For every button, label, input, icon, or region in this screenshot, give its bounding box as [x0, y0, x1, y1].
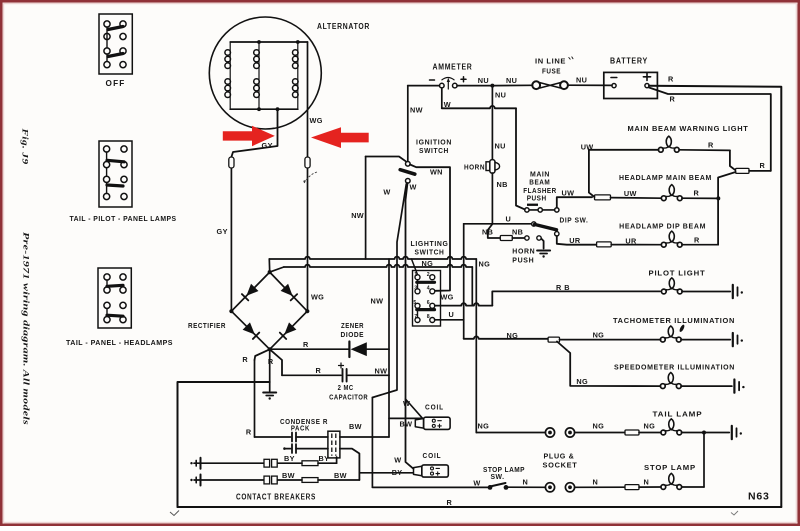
svg-text:8: 8: [427, 314, 430, 320]
svg-text:NU: NU: [506, 76, 517, 85]
svg-text:R: R: [447, 498, 453, 507]
svg-text:HORN: HORN: [512, 247, 535, 256]
svg-text:BY: BY: [319, 454, 330, 463]
svg-text:5: 5: [413, 300, 416, 306]
svg-text:SWITCH: SWITCH: [415, 247, 445, 256]
svg-text:PUSH: PUSH: [527, 193, 547, 202]
svg-text:PACK: PACK: [291, 423, 310, 432]
svg-text:WG: WG: [310, 116, 323, 125]
svg-text:PILOT LIGHT: PILOT LIGHT: [649, 269, 706, 278]
svg-text:UW: UW: [562, 188, 575, 197]
svg-text:DIP SW.: DIP SW.: [560, 215, 589, 224]
svg-text:PUSH: PUSH: [512, 255, 534, 264]
svg-text:NB: NB: [482, 228, 493, 237]
svg-text:NW: NW: [375, 367, 388, 376]
svg-text:W: W: [410, 183, 417, 192]
svg-text:COIL: COIL: [423, 451, 442, 460]
svg-text:MAIN BEAM WARNING LIGHT: MAIN BEAM WARNING LIGHT: [628, 124, 749, 133]
svg-text:BATTERY: BATTERY: [610, 57, 648, 66]
svg-text:FUSE: FUSE: [542, 67, 561, 76]
svg-text:W: W: [444, 100, 451, 109]
svg-text:SW.: SW.: [491, 472, 505, 481]
svg-text:R: R: [694, 235, 700, 244]
svg-text:UR: UR: [569, 236, 581, 245]
svg-text:R: R: [708, 141, 714, 150]
svg-text:SWITCH: SWITCH: [419, 146, 449, 155]
svg-text:NG: NG: [593, 331, 605, 340]
svg-text:7: 7: [414, 314, 417, 320]
svg-text:WN: WN: [430, 168, 443, 177]
svg-text:R: R: [268, 357, 274, 366]
svg-text:N63: N63: [748, 491, 770, 503]
svg-text:NU: NU: [576, 76, 587, 85]
svg-text:SPEEDOMETER ILLUMINATION: SPEEDOMETER ILLUMINATION: [614, 363, 735, 372]
svg-text:Fig. J9: Fig. J9: [21, 127, 31, 165]
svg-text:RECTIFIER: RECTIFIER: [188, 321, 226, 330]
svg-text:W: W: [383, 188, 390, 197]
svg-text:3: 3: [414, 286, 417, 292]
svg-text:NU: NU: [478, 76, 489, 85]
svg-text:PLUG &: PLUG &: [544, 452, 575, 461]
svg-text:R: R: [694, 189, 700, 198]
svg-text:BW: BW: [349, 422, 362, 431]
svg-text:R: R: [303, 340, 309, 349]
svg-text:NG: NG: [422, 259, 434, 268]
svg-text:N: N: [593, 478, 599, 487]
svg-text:STOP LAMP: STOP LAMP: [644, 463, 696, 472]
svg-text:R: R: [242, 355, 248, 364]
svg-text:BW: BW: [400, 420, 413, 429]
svg-text:NW: NW: [371, 297, 384, 306]
svg-text:TACHOMETER ILLUMINATION: TACHOMETER ILLUMINATION: [613, 316, 735, 325]
svg-text:CAPACITOR: CAPACITOR: [329, 392, 368, 401]
svg-text:OFF: OFF: [106, 79, 126, 88]
svg-text:SOCKET: SOCKET: [543, 461, 578, 470]
svg-text:GY: GY: [262, 141, 273, 150]
svg-text:R: R: [316, 366, 322, 375]
svg-text:W: W: [473, 479, 480, 488]
svg-text:NG: NG: [478, 422, 490, 431]
svg-text:HEADLAMP DIP BEAM: HEADLAMP DIP BEAM: [619, 221, 706, 230]
svg-text:NG: NG: [576, 377, 588, 386]
svg-text:U: U: [449, 310, 455, 319]
svg-text:U: U: [506, 215, 512, 224]
svg-text:NU: NU: [495, 91, 506, 100]
svg-text:HEADLAMP MAIN BEAM: HEADLAMP MAIN BEAM: [619, 173, 712, 182]
svg-text:NB: NB: [512, 228, 523, 237]
svg-text:BY: BY: [392, 468, 403, 477]
svg-text:NU: NU: [495, 142, 506, 151]
svg-text:BW: BW: [282, 471, 295, 480]
svg-text:R: R: [760, 161, 766, 170]
svg-text:COIL: COIL: [425, 402, 444, 411]
svg-text:6: 6: [427, 300, 430, 306]
svg-text:NG: NG: [593, 422, 605, 431]
svg-text:R: R: [668, 75, 674, 84]
svg-text:2: 2: [427, 272, 430, 278]
svg-text:WG: WG: [311, 293, 324, 302]
svg-text:W: W: [394, 456, 401, 465]
svg-text:AMMETER: AMMETER: [433, 63, 473, 72]
svg-text:R: R: [670, 95, 676, 104]
svg-text:NG: NG: [507, 331, 519, 340]
svg-text:UW: UW: [581, 142, 594, 151]
svg-text:WG: WG: [441, 293, 454, 302]
svg-text:NG: NG: [644, 422, 656, 431]
svg-text:TAIL - PILOT - PANEL LAMPS: TAIL - PILOT - PANEL LAMPS: [70, 214, 177, 223]
svg-text:R B: R B: [556, 283, 570, 292]
svg-text:NB: NB: [497, 180, 508, 189]
svg-text:ALTERNATOR: ALTERNATOR: [317, 22, 370, 31]
svg-text:N: N: [523, 478, 529, 487]
svg-text:DIODE: DIODE: [341, 330, 365, 339]
svg-text:R: R: [246, 428, 252, 437]
svg-text:IN LINE: IN LINE: [535, 57, 566, 66]
svg-text:N: N: [644, 478, 650, 487]
svg-text:NW: NW: [410, 106, 423, 115]
svg-text:NG: NG: [479, 260, 491, 269]
svg-text:2 MC: 2 MC: [338, 383, 354, 392]
svg-text:BY: BY: [284, 454, 295, 463]
svg-text:BW: BW: [334, 471, 347, 480]
svg-text:CONTACT BREAKERS: CONTACT BREAKERS: [236, 493, 316, 502]
svg-text:TAIL - PANEL - HEADLAMPS: TAIL - PANEL - HEADLAMPS: [66, 338, 173, 347]
svg-text:UR: UR: [625, 236, 637, 245]
svg-text:NW: NW: [351, 211, 364, 220]
svg-text:Pre-1971 wiring diagram. All: Pre-1971 wiring diagram. All models: [22, 232, 32, 426]
svg-text:4: 4: [427, 286, 430, 292]
svg-text:HORN: HORN: [464, 162, 485, 171]
svg-text:GY: GY: [217, 227, 228, 236]
svg-text:UW: UW: [624, 189, 637, 198]
svg-text:TAIL LAMP: TAIL LAMP: [653, 410, 703, 419]
svg-text:ZENER: ZENER: [341, 321, 364, 330]
